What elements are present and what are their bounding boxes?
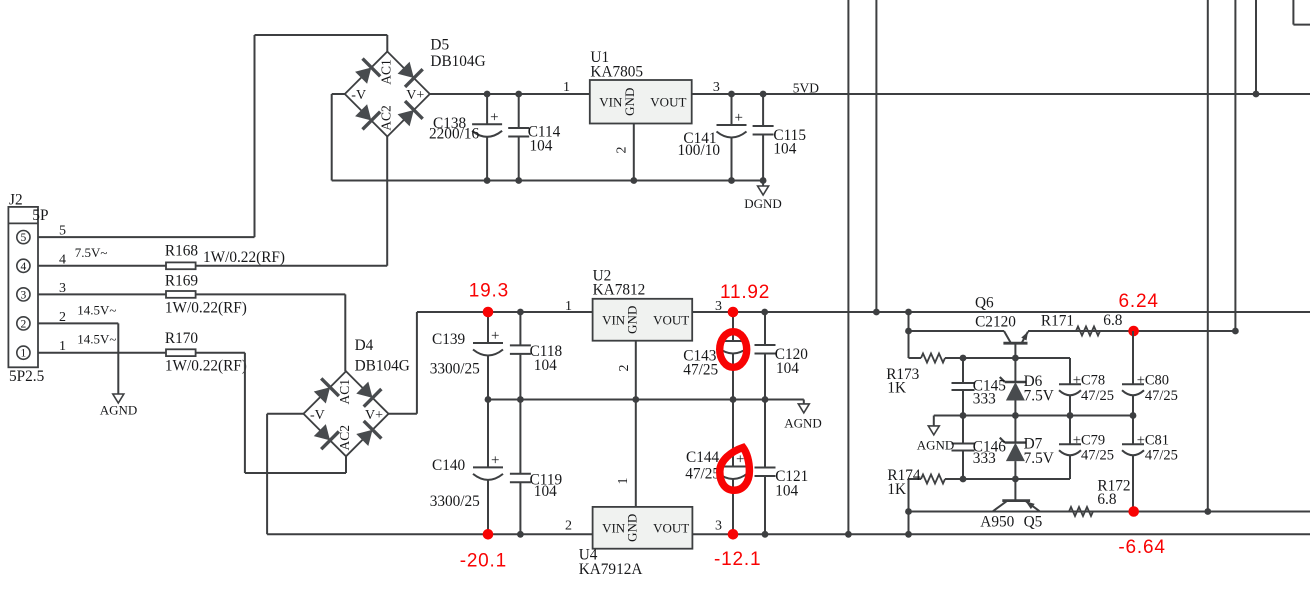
svg-text:DB104G: DB104G — [355, 358, 410, 375]
svg-text:5P: 5P — [32, 207, 48, 224]
svg-text:C139: C139 — [432, 331, 465, 348]
svg-text:5: 5 — [21, 232, 27, 244]
svg-text:1K: 1K — [887, 380, 906, 397]
svg-text:Q5: Q5 — [1024, 514, 1043, 531]
svg-text:14.5V~: 14.5V~ — [77, 331, 116, 346]
svg-text:104: 104 — [775, 483, 798, 500]
svg-text:KA7812: KA7812 — [593, 282, 646, 299]
svg-text:D4: D4 — [355, 337, 374, 354]
svg-text:47/25: 47/25 — [1081, 388, 1114, 404]
svg-text:AC1: AC1 — [378, 59, 393, 85]
svg-text:3300/25: 3300/25 — [430, 361, 480, 378]
svg-text:R171: R171 — [1041, 313, 1074, 330]
svg-text:1W/0.22(RF): 1W/0.22(RF) — [203, 249, 285, 266]
svg-text:104: 104 — [776, 360, 799, 377]
svg-text:5P2.5: 5P2.5 — [9, 368, 45, 385]
svg-text:2: 2 — [615, 147, 630, 154]
svg-text:+C80: +C80 — [1137, 373, 1169, 389]
svg-text:47/25: 47/25 — [1145, 388, 1178, 404]
svg-text:J2: J2 — [9, 192, 23, 209]
svg-text:GND: GND — [625, 514, 640, 542]
svg-text:V+: V+ — [365, 408, 383, 423]
svg-text:V+: V+ — [406, 88, 424, 103]
svg-text:3: 3 — [715, 519, 722, 534]
svg-text:4: 4 — [21, 261, 27, 273]
svg-text:7.5V~: 7.5V~ — [75, 245, 108, 260]
svg-text:KA7805: KA7805 — [590, 64, 643, 81]
svg-text:47/25: 47/25 — [1081, 448, 1114, 464]
svg-text:AGND: AGND — [917, 438, 955, 453]
svg-text:+: + — [491, 453, 499, 469]
svg-text:AC2: AC2 — [337, 425, 352, 451]
svg-text:+: + — [491, 328, 499, 344]
svg-text:AGND: AGND — [100, 403, 138, 418]
svg-text:VIN: VIN — [602, 520, 626, 535]
svg-text:C140: C140 — [432, 457, 465, 474]
svg-text:DGND: DGND — [744, 196, 782, 211]
svg-text:Q6: Q6 — [975, 295, 994, 312]
svg-text:14.5V~: 14.5V~ — [77, 303, 116, 318]
svg-text:VOUT: VOUT — [653, 520, 689, 535]
svg-text:DB104G: DB104G — [430, 53, 485, 70]
svg-text:104: 104 — [534, 483, 557, 500]
svg-text:1K: 1K — [887, 481, 906, 498]
svg-text:2: 2 — [565, 519, 572, 534]
svg-text:GND: GND — [622, 88, 637, 116]
svg-text:3: 3 — [21, 289, 27, 301]
svg-text:C144: C144 — [686, 449, 719, 466]
svg-text:A950: A950 — [980, 514, 1014, 531]
svg-text:D5: D5 — [430, 37, 449, 54]
svg-text:R170: R170 — [165, 330, 198, 347]
svg-text:3300/25: 3300/25 — [430, 493, 480, 510]
svg-text:1W/0.22(RF): 1W/0.22(RF) — [165, 357, 247, 374]
svg-text:-12.1: -12.1 — [714, 549, 761, 570]
svg-text:KA7912A: KA7912A — [579, 561, 643, 578]
svg-text:1: 1 — [21, 348, 27, 360]
svg-text:104: 104 — [773, 141, 796, 158]
svg-text:VIN: VIN — [602, 312, 626, 327]
svg-text:R169: R169 — [165, 273, 198, 290]
svg-text:VIN: VIN — [599, 94, 623, 109]
svg-text:1W/0.22(RF): 1W/0.22(RF) — [165, 300, 247, 317]
svg-text:2: 2 — [617, 365, 632, 372]
svg-text:47/25: 47/25 — [1145, 448, 1178, 464]
svg-text:104: 104 — [530, 138, 553, 155]
svg-text:333: 333 — [973, 391, 996, 408]
svg-text:-V: -V — [310, 408, 325, 423]
svg-text:2: 2 — [21, 318, 27, 330]
svg-text:2200/16: 2200/16 — [429, 126, 479, 143]
svg-text:VOUT: VOUT — [650, 94, 686, 109]
svg-text:104: 104 — [534, 357, 557, 374]
svg-text:+: + — [490, 110, 498, 126]
svg-text:AC1: AC1 — [337, 379, 352, 405]
svg-text:R168: R168 — [165, 243, 198, 260]
svg-text:3: 3 — [713, 80, 720, 95]
svg-text:+C79: +C79 — [1073, 433, 1105, 449]
svg-text:AGND: AGND — [784, 416, 822, 431]
svg-text:47/25: 47/25 — [685, 466, 720, 483]
svg-text:100/10: 100/10 — [678, 142, 721, 159]
svg-text:19.3: 19.3 — [469, 280, 509, 301]
svg-text:47/25: 47/25 — [683, 362, 718, 379]
svg-text:1: 1 — [616, 478, 631, 485]
svg-text:6.8: 6.8 — [1097, 491, 1116, 508]
svg-text:333: 333 — [973, 450, 996, 467]
svg-text:-V: -V — [351, 88, 366, 103]
svg-text:6.8: 6.8 — [1103, 312, 1122, 329]
svg-text:AC2: AC2 — [378, 105, 393, 131]
svg-text:GND: GND — [625, 306, 640, 334]
svg-text:+C78: +C78 — [1073, 373, 1105, 389]
svg-text:+C81: +C81 — [1137, 433, 1169, 449]
svg-text:-6.64: -6.64 — [1118, 537, 1165, 558]
svg-text:5VD: 5VD — [793, 81, 819, 96]
svg-text:-20.1: -20.1 — [460, 551, 507, 572]
svg-text:1: 1 — [563, 80, 570, 95]
svg-text:C2120: C2120 — [975, 314, 1016, 331]
svg-text:7.5V: 7.5V — [1024, 450, 1054, 467]
svg-text:11.92: 11.92 — [720, 282, 770, 303]
svg-text:7.5V: 7.5V — [1024, 388, 1054, 405]
svg-text:6.24: 6.24 — [1119, 291, 1159, 312]
svg-text:VOUT: VOUT — [653, 312, 689, 327]
svg-text:+: + — [735, 110, 743, 126]
